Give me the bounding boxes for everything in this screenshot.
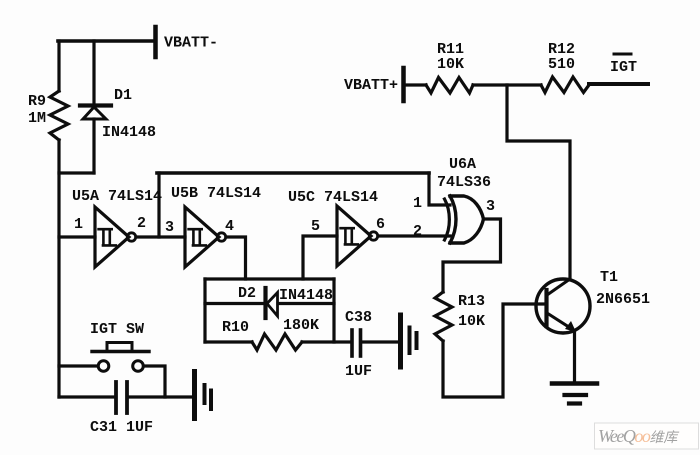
svg-text:R10: R10 xyxy=(222,319,249,336)
wire switch left xyxy=(59,364,98,367)
ground (emitter) xyxy=(552,384,597,404)
svg-text:1: 1 xyxy=(74,216,83,233)
diode D2 xyxy=(266,288,278,318)
wire R10 to C38 xyxy=(302,340,350,343)
pushbutton IGT SW xyxy=(92,343,149,372)
wire box right edge xyxy=(332,279,335,342)
ground (C31) xyxy=(195,372,212,419)
power symbol VBATT- (top-left rail) xyxy=(58,27,156,57)
wire left rail top xyxy=(57,41,60,91)
wire feedback box top rail xyxy=(205,277,334,280)
net label IGT with overline xyxy=(614,53,631,56)
svg-text:3: 3 xyxy=(165,219,174,236)
inverter U5A xyxy=(95,207,136,267)
wire U5B output xyxy=(226,237,246,279)
resistor R11 xyxy=(426,78,473,94)
resistor R9 xyxy=(50,91,68,140)
capacitor C38 xyxy=(352,330,361,356)
svg-text:5: 5 xyxy=(311,218,320,235)
svg-text:VBATT-: VBATT- xyxy=(164,35,218,52)
svg-text:U6A: U6A xyxy=(449,156,476,173)
svg-text:1M: 1M xyxy=(28,110,46,127)
wire C31 to ground xyxy=(129,395,192,398)
wire top rail xyxy=(157,171,429,175)
wire C38 to ground xyxy=(362,340,398,343)
svg-text:6: 6 xyxy=(376,216,385,233)
inverter U5C xyxy=(337,206,378,266)
svg-text:510: 510 xyxy=(548,56,575,73)
diode D1 xyxy=(80,41,111,173)
svg-text:C38: C38 xyxy=(345,309,372,326)
wire U5C output to U6A pin2 xyxy=(378,234,450,237)
svg-text:10K: 10K xyxy=(437,56,464,73)
resistor R12 xyxy=(541,77,589,93)
svg-text:74LS36: 74LS36 xyxy=(437,174,491,191)
wire junction riser to top rail xyxy=(157,173,160,237)
svg-text:D1: D1 xyxy=(114,87,132,104)
wire U6A pin1 from top rail xyxy=(429,173,450,205)
wire U5A input xyxy=(59,235,95,238)
wire diode row right xyxy=(278,302,334,305)
svg-text:VBATT+: VBATT+ xyxy=(344,77,398,94)
wire U5C input xyxy=(303,236,337,279)
svg-text:2N6651: 2N6651 xyxy=(596,291,650,308)
svg-text:1: 1 xyxy=(413,195,422,212)
svg-text:IGT SW: IGT SW xyxy=(90,321,144,338)
svg-text:R9: R9 xyxy=(28,93,46,110)
svg-text:IGT: IGT xyxy=(610,59,637,76)
svg-text:2: 2 xyxy=(137,215,146,232)
svg-text:C31 1UF: C31 1UF xyxy=(90,419,153,436)
power symbol VBATT+ (top-right) xyxy=(401,68,406,101)
svg-text:U5A 74LS14: U5A 74LS14 xyxy=(72,188,162,205)
svg-text:180K: 180K xyxy=(283,317,319,334)
wire left rail below R9 xyxy=(57,140,60,397)
wire D1 bottom jog xyxy=(59,171,94,174)
svg-text:U5C 74LS14: U5C 74LS14 xyxy=(288,189,378,206)
wire R13 bottom to base xyxy=(443,304,544,397)
wire U6A output loop to R13 xyxy=(443,219,501,292)
svg-text:U5B 74LS14: U5B 74LS14 xyxy=(171,185,261,202)
resistor R13 xyxy=(435,292,452,341)
resistor R10 xyxy=(252,334,302,350)
svg-text:1UF: 1UF xyxy=(345,363,372,380)
transistor T1 xyxy=(536,279,590,333)
svg-text:T1: T1 xyxy=(600,269,618,286)
ground (C38) xyxy=(401,315,417,367)
capacitor C31 xyxy=(116,382,127,413)
wire emitter xyxy=(573,331,576,383)
svg-text:10K: 10K xyxy=(458,313,485,330)
svg-text:R13: R13 xyxy=(458,293,485,310)
wire C31 row left xyxy=(59,395,114,398)
svg-text:IN4148: IN4148 xyxy=(279,287,333,304)
svg-text:2: 2 xyxy=(413,223,422,240)
svg-text:4: 4 xyxy=(225,218,234,235)
wire VBATT+ to R11 xyxy=(405,83,426,86)
wire box left edge xyxy=(203,279,206,342)
inverter U5B xyxy=(185,207,226,267)
or-gate U6A xyxy=(445,196,484,243)
watermark WeeQoo xyxy=(595,423,699,449)
svg-text:3: 3 xyxy=(486,198,495,215)
svg-text:IN4148: IN4148 xyxy=(102,124,156,141)
wire R11 to R12 xyxy=(473,83,541,86)
wire R10 row left xyxy=(205,340,252,343)
wire collector feed xyxy=(507,85,570,278)
wire R12 to IGT xyxy=(589,82,648,86)
wire U5A output to U5B input xyxy=(136,235,185,238)
wire switch right xyxy=(144,366,166,397)
wire diode row left xyxy=(205,302,263,305)
svg-text:D2: D2 xyxy=(238,285,256,302)
